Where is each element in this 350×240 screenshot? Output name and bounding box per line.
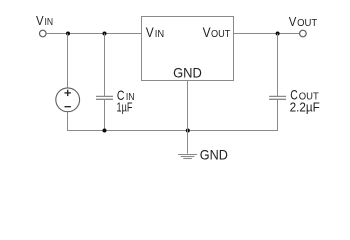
svg-text:2.2µF: 2.2µF bbox=[290, 100, 320, 115]
label COUT bbox=[290, 88, 319, 103]
svg-text:IN: IN bbox=[45, 17, 54, 28]
svg-text:V: V bbox=[36, 14, 44, 28]
wire output rail bbox=[234, 33, 300, 35]
pin label VOUT (inside U1) bbox=[203, 25, 231, 40]
svg-text:GND: GND bbox=[173, 66, 202, 81]
node VIN input terminal circle bbox=[40, 30, 47, 37]
node VOUT terminal label bbox=[289, 15, 318, 29]
op-amp/regulator U1 box bbox=[142, 17, 234, 81]
wire input rail bbox=[46, 33, 141, 35]
label CIN bbox=[117, 88, 135, 103]
voltage source V1 bbox=[56, 34, 80, 132]
node VIN terminal label bbox=[36, 14, 53, 28]
wire GND pin of U1 down to ground bbox=[187, 81, 189, 154]
svg-text:V: V bbox=[289, 15, 297, 29]
node VOUT terminal circle bbox=[300, 30, 307, 37]
junction dot source/input rail bbox=[66, 32, 70, 36]
capacitor CIN bbox=[96, 34, 113, 131]
svg-text:IN: IN bbox=[155, 28, 164, 40]
junction dot CIN/ground rail bbox=[103, 129, 107, 133]
svg-text:1µF: 1µF bbox=[117, 100, 133, 115]
svg-text:V: V bbox=[203, 25, 212, 40]
junction dot COUT/output rail bbox=[276, 32, 280, 36]
wire ground rail bbox=[67, 130, 278, 132]
svg-text:V: V bbox=[146, 25, 155, 40]
pin label VIN (inside U1) bbox=[146, 25, 164, 40]
junction dot CIN/input rail bbox=[103, 32, 107, 36]
capacitor COUT bbox=[269, 34, 286, 132]
svg-text:GND: GND bbox=[200, 148, 228, 163]
svg-text:OUT: OUT bbox=[297, 18, 317, 29]
junction dot GND pin/ground rail bbox=[186, 129, 190, 133]
ground symbol bbox=[178, 155, 197, 159]
svg-text:OUT: OUT bbox=[211, 28, 231, 40]
